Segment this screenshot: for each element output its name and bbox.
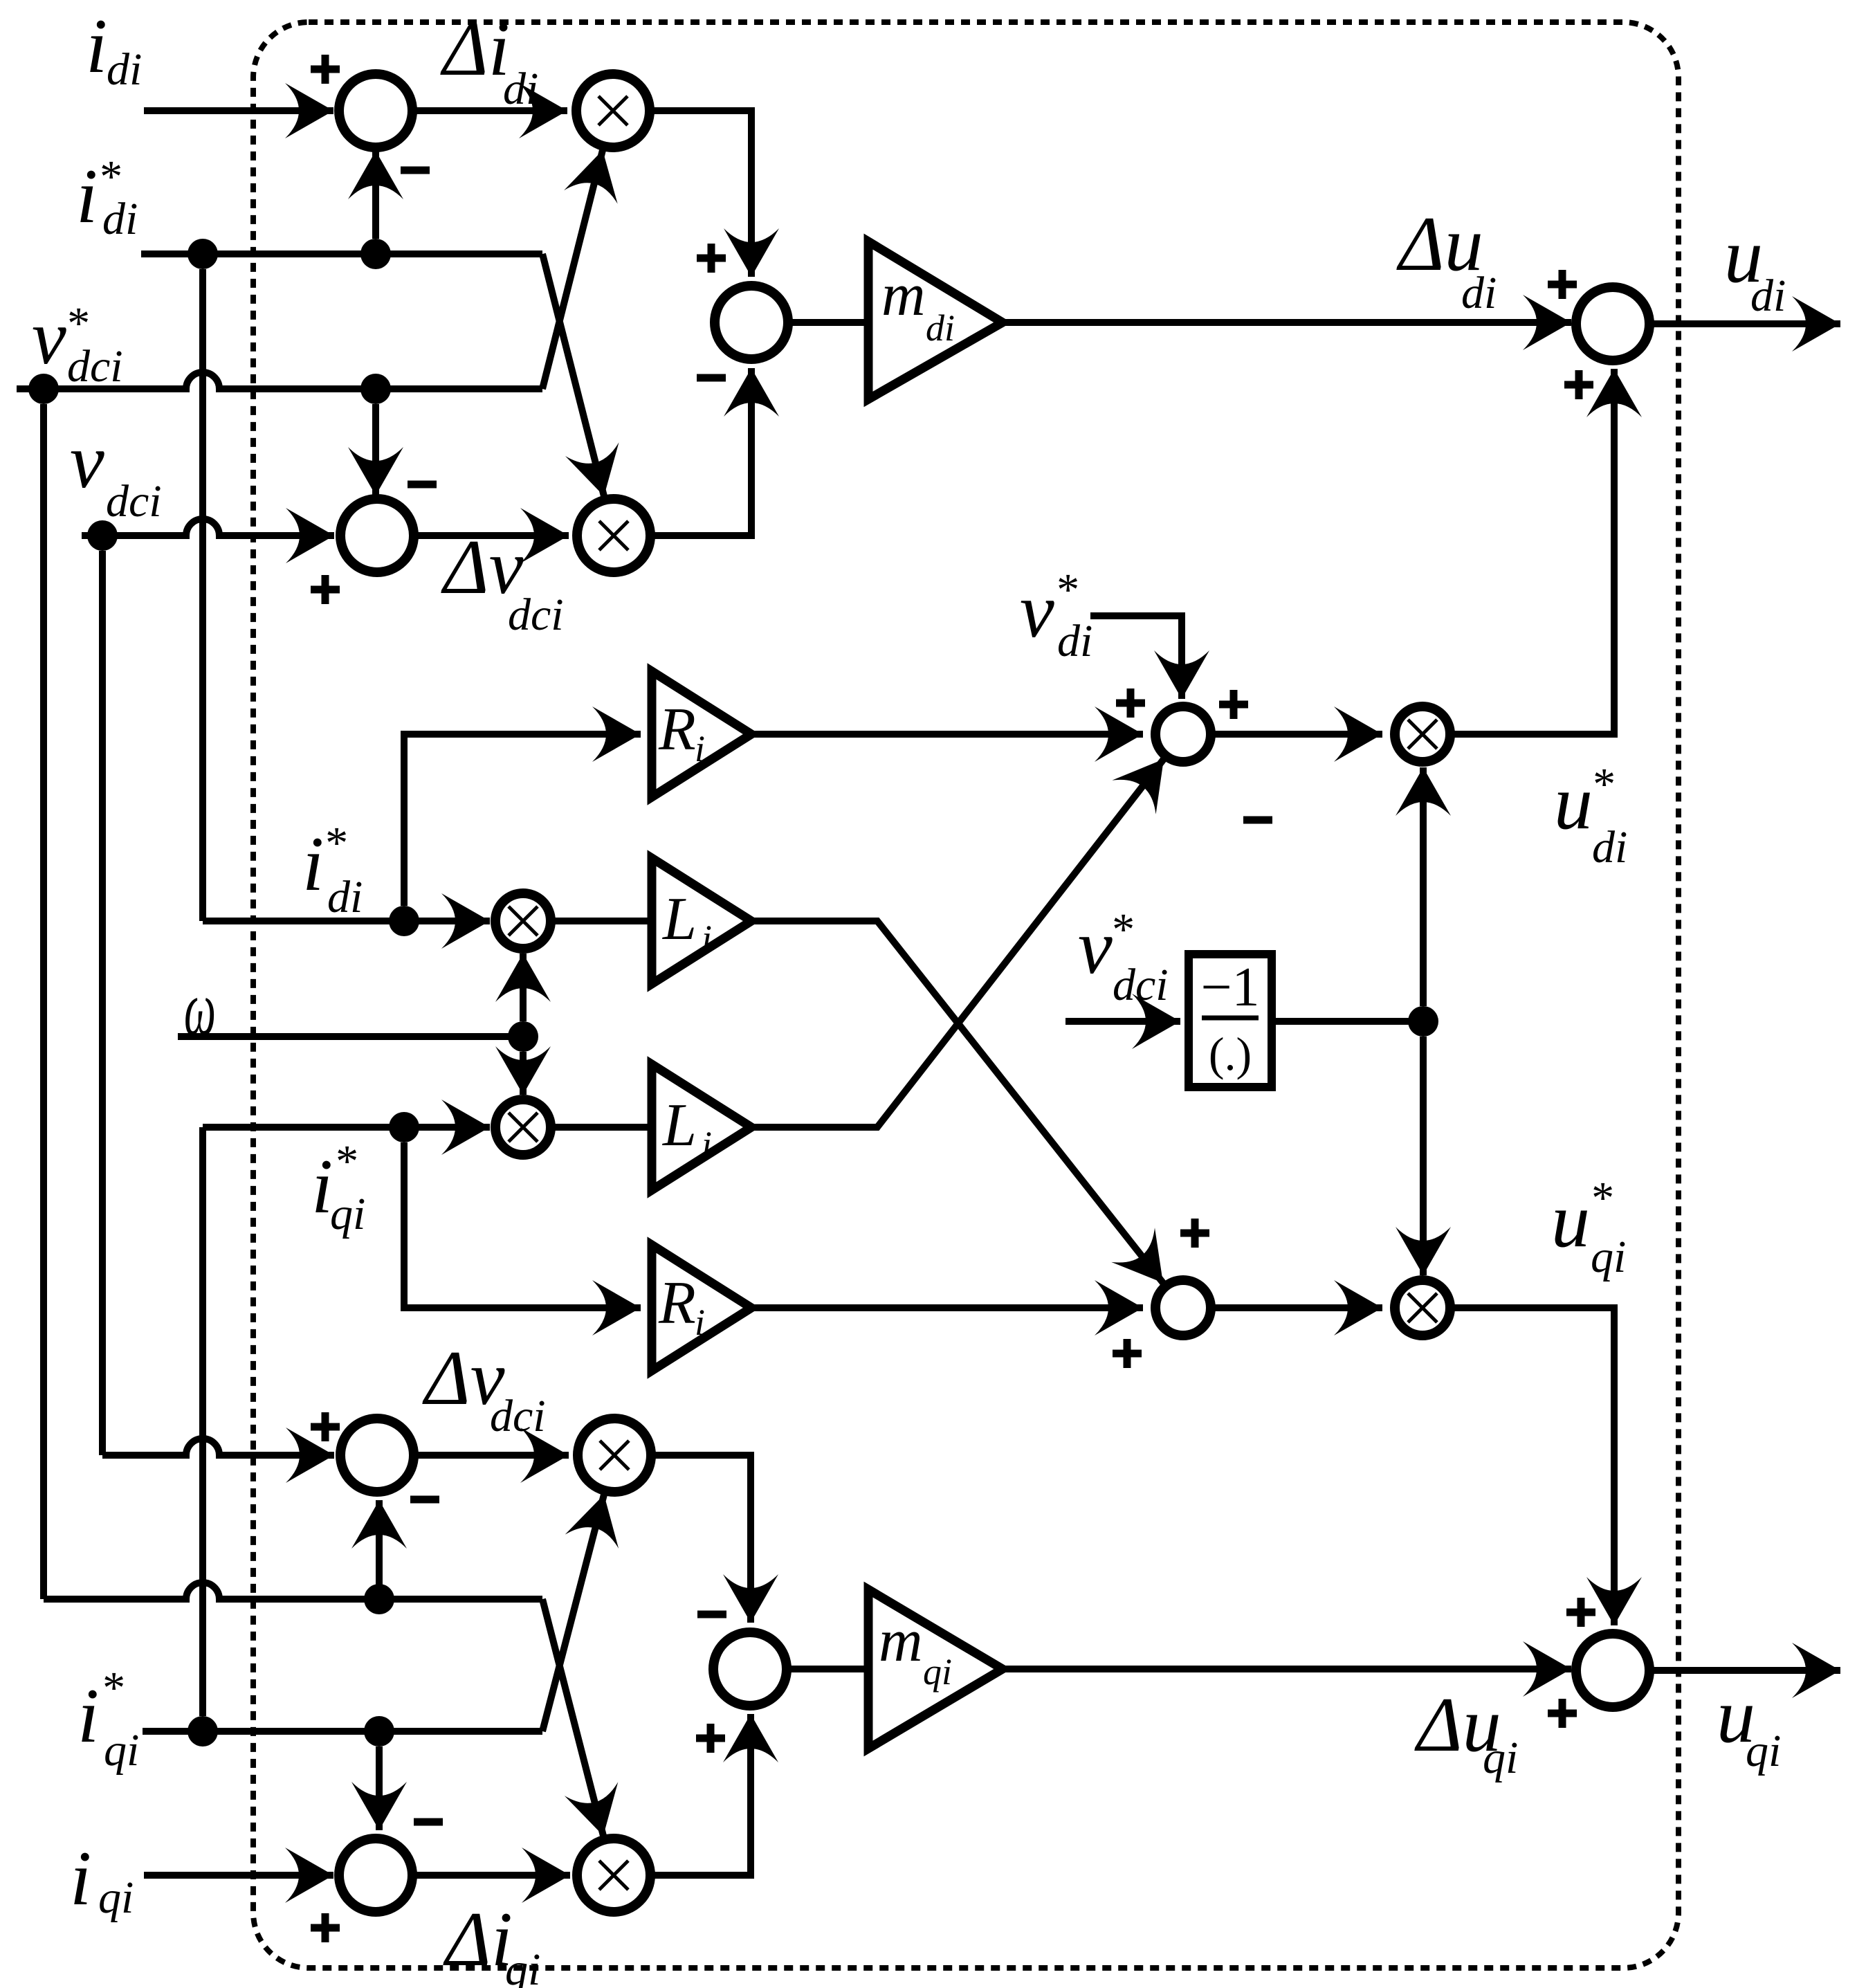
svg-text:i: i [702,918,712,959]
wire m_di output Delta u_di to summer S4 [1003,319,1571,326]
wire M5 output to S9 minus input [651,1455,751,1623]
wire block output to column dot [1272,1018,1423,1025]
multiplier M5 (Delta v_dci x i*_qi) [578,1419,651,1492]
svg-text:qi: qi [505,1944,540,1988]
svg-text:di: di [102,194,138,244]
wire M1 output to S3 plus input [650,111,751,277]
wire S9 output to gain m_qi [787,1666,873,1672]
summing junction S9 (Delta u_qi) [713,1632,787,1706]
svg-text:qi: qi [1746,1726,1781,1776]
wire v*_dci diagonal into multiplier M1 [542,150,603,389]
wire i_di input [144,107,333,114]
wire i*_di diagonal into multiplier M2 [542,254,604,496]
wire S3 output to gain m_di [788,319,873,326]
wire i_qi input into S8 [144,1872,333,1879]
gain triangle L_i (upper) [652,858,751,984]
wire M9 output to gain L_i [551,918,656,924]
svg-text:u: u [1551,1178,1590,1264]
summing junction S1 (i_di - i*_di) [339,74,412,147]
svg-text:*: * [323,818,346,868]
svg-text:L: L [661,886,697,953]
wire S8 output to multiplier M6 [412,1872,570,1879]
svg-text:(.): (.) [1209,1028,1252,1080]
svg-text:*: * [1589,1173,1612,1223]
wire v*_dci down into S2 minus input [372,404,379,495]
plus sign at summer S2 + input [311,575,340,604]
svg-text:dci: dci [106,476,162,527]
plus sign at summer S3 + input [697,244,726,273]
junction dot i*_di mid branch [389,906,419,936]
wire i*_qi diagonal into multiplier M5 [542,1495,604,1731]
wire u_di output [1649,320,1840,327]
svg-text:qi: qi [98,1872,134,1923]
wire R_i output into summer S5 [751,731,1143,738]
wire S6 output into multiplier M12 [1211,1304,1382,1311]
wire v*_dci left bus down to q-group [40,404,47,1599]
svg-text:i: i [77,1673,99,1759]
svg-text:di: di [926,307,955,349]
svg-text:dci: dci [67,341,123,392]
wire M12 output down to summer S8 [1450,1308,1614,1625]
junction dot v*_dci branch to S2 [360,374,391,404]
wire S1 output to multiplier M1 [412,107,567,114]
svg-text:di: di [503,64,538,114]
wire v*_dci into reciprocal block [1065,1018,1180,1025]
junction dot block output [1408,1006,1438,1037]
wire M11 output up to summer S4 [1450,369,1614,734]
wire M2 output to S3 minus input [650,368,751,536]
svg-text:di: di [1750,271,1786,321]
svg-text:dci: dci [490,1391,546,1441]
plus sign at summer S10 top + input [1566,1598,1595,1627]
plus sign at summer S10 left + input [1548,1699,1577,1728]
summing junction S2 (v_dci - v*_dci) [340,499,414,572]
minus sign at summer S2 - input [408,481,437,489]
junction dot v_dci to down-bus [87,520,118,551]
wire v_dci input into S2 [82,519,334,536]
svg-text:v: v [32,295,66,381]
wire S7 output to multiplier M5 [414,1452,569,1459]
svg-text:u: u [1554,760,1593,846]
junction dot i*_di branch to current loop [187,239,218,269]
junction dot i*_qi branch to mid bus [187,1716,218,1747]
plus sign at summer S5 top + input [1219,690,1248,719]
wire i*_di upper bus down to current loop [199,269,206,921]
plus sign at summer S7 + input [311,1412,340,1441]
svg-text:qi: qi [330,1189,365,1239]
svg-text:di: di [107,44,142,95]
svg-text:dci: dci [508,590,564,640]
wire v*_dci diagonal into multiplier M6 [542,1599,603,1836]
summing junction S5 (u*_di / v_dci) [1155,706,1211,762]
svg-text:di: di [327,872,363,922]
junction dot i*_qi mid branch [389,1112,419,1142]
multiplier M11 (u*_di) [1395,706,1450,762]
wire i*_di input run to crossover corner [141,250,542,257]
wire i*_di branch up to gain R_i [404,734,641,906]
junction dot i*_qi branch to S8 [364,1716,394,1747]
svg-text:i: i [702,1124,712,1165]
svg-text:m: m [881,262,926,329]
plus sign at summer S9 + input [696,1724,725,1753]
svg-text:qi: qi [923,1651,952,1693]
svg-text:*: * [333,1136,356,1187]
svg-text:v: v [1020,568,1054,654]
plus sign at summer S4 left + input [1548,270,1577,299]
wire v_dci q-row into summer S7 [102,1439,334,1455]
svg-text:i: i [70,1836,91,1922]
svg-text:qi: qi [1483,1733,1518,1783]
block -1/(.) reciprocal gain [1189,954,1272,1087]
svg-text:i: i [86,3,107,89]
summing junction S7 (v_dci - v*_dci) [340,1419,414,1492]
gain triangle R_i (d-axis) [652,671,751,797]
multiplier M6 (Delta i_qi x v*_dci) [577,1839,650,1912]
wire i*_qi branch down to gain R_i q [404,1142,641,1308]
minus sign at summer S9 - input [697,1611,726,1618]
svg-text:di: di [1592,822,1627,873]
wire M6 output to S9 plus input [650,1714,751,1875]
svg-text:*: * [100,1663,123,1713]
minus sign at summer S5 diagonal - input [1243,817,1272,824]
svg-text:qi: qi [1591,1232,1626,1282]
svg-text:di: di [1057,616,1092,666]
wire omega down into M10 [520,1052,527,1095]
svg-text:qi: qi [104,1725,139,1776]
svg-text:dci: dci [1113,960,1169,1010]
svg-text:v: v [1078,904,1113,990]
svg-text:m: m [879,1607,923,1675]
multiplier M2 (Delta v_dci x i*_di) [577,499,650,572]
wire i*_di mid row into multiplier M9 [203,918,490,924]
dashed controller boundary box [253,22,1678,1968]
multiplier M10 (omega x i*_qi) [495,1100,551,1155]
wire v*_dci q-row to crossover corner [44,1583,542,1599]
svg-text:Δi: Δi [440,6,510,92]
wire i*_qi input run to crossover corner [143,1728,542,1735]
svg-text:−1: −1 [1200,957,1259,1018]
plus sign at summer S5 left + input [1116,688,1145,718]
plus sign at summer S6 left + input [1113,1339,1142,1368]
minus sign at summer S8 - input [414,1818,443,1826]
svg-text:di: di [1461,268,1497,318]
wire omega up into M9 [520,954,527,1021]
plus sign at summer S4 bottom + input [1564,370,1593,399]
wire omega input [178,1033,523,1040]
wire block output up into M11 [1420,767,1427,1006]
svg-text:i: i [695,1302,705,1343]
svg-text:i: i [76,154,98,239]
wire v_dci left bus down to q-group [99,551,106,1455]
wire S5 output into multiplier M11 [1211,731,1382,738]
gain triangle R_i (q-axis) [652,1245,751,1371]
wire block output down into M12 [1420,1037,1427,1275]
summing junction S3 (Delta u_di) [715,286,788,359]
junction dot v*_dci q branch [364,1584,394,1614]
svg-text:L: L [661,1092,697,1159]
plus sign at summer S6 diagonal + input [1180,1219,1209,1248]
gain triangle L_i (lower) [652,1064,751,1190]
wire v*_di input into summer S5 [1090,616,1182,699]
svg-text:R: R [658,1270,696,1337]
wire i*_qi down into S8 minus input [376,1747,383,1830]
wire i*_qi mid row into multiplier M10 [203,1124,490,1131]
multiplier M1 (Delta i_di x v*_dci) [576,74,650,147]
summing junction S8 (i_qi - i*_qi) [339,1839,412,1912]
svg-text:*: * [1591,759,1613,810]
junction dot v*_dci to down-bus [28,374,59,404]
wire S2 output to multiplier M2 [414,532,569,539]
svg-text:R: R [658,696,696,763]
summing junction S4 (u_di output) [1576,287,1649,361]
junction dot omega [508,1021,538,1052]
wire u_qi output [1649,1667,1840,1674]
wire v*_dci input run to crossover corner [17,372,542,389]
svg-text:*: * [1110,904,1133,955]
svg-text:*: * [1054,565,1077,615]
summing junction S10 (u_qi output) [1576,1634,1649,1707]
wire L_i upper output diagonal to summer S6 [751,921,1163,1283]
wire i*_di up into S1 minus input [372,151,379,239]
multiplier M12 (u*_qi) [1395,1280,1450,1335]
wire i*_qi bus from mid row down to i*_qi input row [199,1127,206,1716]
gain triangle m_qi [868,1589,1003,1749]
svg-text:v: v [70,419,104,504]
svg-text:Δi: Δi [443,1897,513,1982]
minus sign at summer S3 - input [697,374,726,382]
wire v*_dci up into S7 minus input [376,1500,383,1599]
summing junction S6 (u*_qi / v_dci) [1155,1280,1211,1335]
svg-text:i: i [695,728,705,769]
wire R_i q output into summer S6 [751,1304,1143,1311]
minus sign at summer S7 - input [410,1496,439,1504]
wire m_qi output Delta u_qi to summer S10 [1003,1666,1571,1672]
wire M10 output to gain L_i lower [551,1124,656,1131]
minus sign at summer S1 - input [401,167,430,174]
svg-text:i: i [302,821,324,907]
multiplier M9 (omega x i*_di) [495,893,551,949]
gain triangle m_di [868,241,1003,399]
plus sign at summer S8 + input [311,1913,340,1942]
wire L_i lower output diagonal to summer S5 [751,759,1164,1127]
plus sign at summer S1 + input [311,55,340,84]
junction dot i*_di branch to S1 [360,239,391,269]
